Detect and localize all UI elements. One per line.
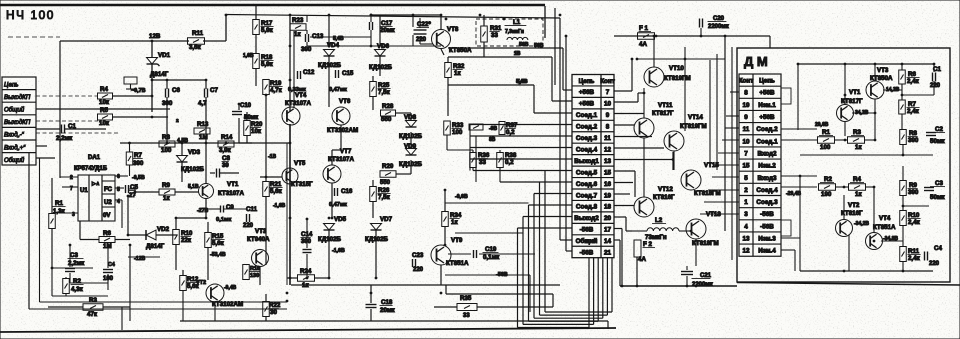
svg-text:1В: 1В: [514, 51, 521, 57]
svg-text:C7: C7: [210, 87, 218, 94]
svg-text:220: 220: [243, 223, 254, 229]
svg-text:Соед.2: Соед.2: [576, 124, 598, 131]
svg-text:VT11: VT11: [658, 102, 673, 109]
svg-text:▷∧: ▷∧: [91, 181, 100, 187]
svg-text:Д М: Д М: [744, 54, 768, 69]
svg-text:КТ817Г: КТ817Г: [841, 98, 863, 105]
svg-text:22к: 22к: [181, 237, 192, 244]
svg-text:Общий: Общий: [576, 237, 598, 245]
svg-text:5,9к: 5,9к: [261, 27, 274, 34]
svg-text:2,4к: 2,4к: [907, 108, 920, 115]
svg-text:VD7: VD7: [380, 216, 393, 223]
svg-text:100: 100: [820, 144, 831, 151]
svg-text:L1: L1: [513, 19, 521, 26]
svg-text:R8: R8: [909, 130, 917, 137]
svg-text:Цепь: Цепь: [579, 78, 595, 85]
svg-text:20мк: 20мк: [380, 27, 395, 34]
svg-text:R1: R1: [822, 129, 830, 136]
svg-text:100: 100: [161, 147, 172, 154]
svg-text:1М: 1М: [199, 134, 208, 141]
svg-text:C23: C23: [412, 252, 424, 259]
svg-text:R26: R26: [378, 187, 390, 194]
svg-text:3,9к: 3,9к: [219, 147, 232, 154]
svg-text:R2: R2: [824, 176, 832, 183]
svg-text:DA1: DA1: [88, 155, 101, 161]
svg-text:R7: R7: [908, 101, 916, 108]
svg-text:C3: C3: [935, 180, 943, 187]
svg-text:F 2: F 2: [643, 241, 652, 248]
svg-text:C17: C17: [381, 20, 393, 27]
svg-text:VT12: VT12: [658, 186, 673, 193]
svg-text:-9В: -9В: [489, 126, 497, 132]
svg-text:5,1В: 5,1В: [188, 184, 199, 190]
svg-text:R13: R13: [197, 121, 209, 128]
svg-text:2200мк: 2200мк: [708, 24, 729, 30]
svg-text:КД102Б: КД102Б: [369, 64, 393, 71]
svg-text:Вход3: Вход3: [757, 175, 777, 182]
svg-text:47к: 47к: [87, 311, 98, 318]
svg-text:КД102Б: КД102Б: [318, 236, 342, 243]
svg-text:Выход1: Выход1: [574, 158, 599, 165]
svg-text:220: 220: [413, 267, 424, 273]
svg-text:21: 21: [604, 250, 612, 257]
svg-text:R4: R4: [100, 86, 108, 93]
svg-text:0,1мк: 0,1мк: [483, 254, 500, 261]
svg-text:КД102Б: КД102Б: [181, 166, 205, 173]
svg-text:КД102Б: КД102Б: [365, 236, 389, 243]
svg-text:20: 20: [604, 215, 612, 222]
svg-text:VT6: VT6: [339, 98, 351, 105]
svg-text:КТ3102АМ: КТ3102АМ: [327, 127, 358, 134]
svg-text:33: 33: [491, 32, 498, 39]
svg-text:R9: R9: [909, 182, 917, 189]
svg-text:R23: R23: [292, 17, 304, 24]
svg-text:9: 9: [744, 114, 748, 121]
svg-text:220: 220: [416, 37, 427, 43]
svg-text:R10: R10: [181, 230, 193, 237]
svg-text:1,6В: 1,6В: [243, 53, 254, 59]
svg-text:VT10: VT10: [669, 65, 684, 72]
svg-text:14: 14: [604, 238, 612, 245]
svg-text:R38: R38: [505, 152, 517, 159]
svg-text:R37: R37: [506, 122, 518, 129]
svg-text:НЧ 100: НЧ 100: [6, 8, 55, 22]
svg-text:C9: C9: [226, 205, 234, 211]
svg-text:R17: R17: [261, 20, 273, 27]
svg-text:0,2: 0,2: [505, 159, 514, 166]
svg-text:Соед.8: Соед.8: [576, 204, 598, 211]
svg-text:VT8: VT8: [447, 26, 459, 33]
svg-text:КТ816Г: КТ816Г: [653, 194, 675, 201]
svg-text:R8: R8: [162, 134, 170, 141]
svg-text:C22*: C22*: [417, 21, 431, 28]
svg-text:VT9: VT9: [451, 237, 463, 244]
svg-text:10к: 10к: [99, 99, 110, 106]
svg-text:R7: R7: [134, 152, 142, 159]
svg-text:Соед.1: Соед.1: [756, 138, 778, 145]
svg-text:Вход„+“: Вход„+“: [4, 144, 26, 151]
svg-text:1к: 1к: [163, 195, 170, 202]
svg-text:1,3к: 1,3к: [53, 208, 66, 215]
svg-text:VD8: VD8: [404, 114, 417, 121]
svg-text:VT7: VT7: [340, 148, 352, 155]
svg-text:Соед.3: Соед.3: [576, 135, 598, 142]
svg-text:C10: C10: [240, 103, 252, 109]
svg-text:50мк: 50мк: [930, 194, 945, 201]
svg-text:-56В: -56В: [580, 227, 594, 234]
svg-text:КТ3107А: КТ3107А: [285, 100, 311, 107]
svg-text:7: 7: [744, 150, 748, 157]
svg-text:7,5к: 7,5к: [378, 194, 391, 201]
svg-text:Изм.1: Изм.1: [758, 102, 776, 109]
svg-text:VT1: VT1: [227, 181, 239, 188]
svg-text:Соед.5: Соед.5: [576, 169, 598, 176]
svg-text:C4: C4: [934, 245, 942, 252]
svg-text:7,5к: 7,5к: [378, 89, 391, 96]
svg-text:Цепь: Цепь: [4, 81, 19, 88]
svg-text:~0,7В: ~0,7В: [131, 88, 146, 94]
svg-text:R3: R3: [89, 297, 97, 304]
svg-text:R18: R18: [261, 54, 273, 61]
svg-text:4: 4: [744, 223, 748, 230]
svg-text:Соед.7: Соед.7: [576, 192, 598, 199]
svg-text:Конт: Конт: [739, 78, 754, 85]
svg-text:130: 130: [250, 273, 259, 279]
svg-text:VT14: VT14: [688, 114, 703, 121]
svg-text:C20: C20: [713, 16, 725, 22]
svg-text:-34,2В: -34,2В: [854, 221, 869, 227]
svg-text:-1,6В: -1,6В: [273, 203, 286, 209]
svg-text:VT5: VT5: [294, 160, 306, 167]
svg-text:29,6В: 29,6В: [815, 122, 829, 128]
svg-text:+56В: +56В: [579, 101, 595, 108]
svg-text:11: 11: [743, 126, 750, 133]
svg-text:9: 9: [606, 112, 610, 119]
svg-text:2,2мк: 2,2мк: [56, 135, 73, 142]
svg-text:КТ851А: КТ851А: [446, 260, 469, 267]
svg-text:1к: 1к: [855, 191, 862, 198]
svg-text:C2: C2: [935, 126, 943, 133]
svg-text:30: 30: [270, 309, 277, 316]
svg-text:Д814Г: Д814Г: [146, 243, 165, 250]
svg-text:5,6к: 5,6к: [270, 188, 283, 195]
svg-text:390: 390: [908, 137, 919, 144]
svg-text:-56В: -56В: [760, 211, 774, 218]
svg-text:12: 12: [742, 248, 750, 255]
svg-text:0,2: 0,2: [506, 129, 515, 136]
svg-text:+56В: +56В: [759, 114, 775, 121]
svg-text:ВыходКП: ВыходКП: [4, 119, 31, 126]
svg-text:550: 550: [381, 116, 392, 123]
svg-text:5,4В: 5,4В: [517, 79, 528, 85]
svg-text:VT1: VT1: [849, 89, 861, 96]
svg-text:390: 390: [908, 189, 919, 196]
svg-text:R33: R33: [452, 122, 464, 129]
svg-text:КТ818ГМ: КТ818ГМ: [694, 190, 721, 197]
svg-text:КР574УД1Б: КР574УД1Б: [74, 166, 108, 172]
svg-text:Общий: Общий: [4, 157, 25, 164]
svg-text:а: а: [244, 116, 247, 121]
svg-text:VD9: VD9: [404, 143, 417, 150]
svg-text:C15: C15: [342, 70, 354, 77]
svg-text:Соед.4: Соед.4: [756, 187, 778, 194]
svg-text:-1В: -1В: [268, 154, 276, 160]
svg-text:1к: 1к: [294, 31, 301, 38]
svg-text:190: 190: [821, 191, 832, 198]
svg-text:0,47мк: 0,47мк: [329, 87, 347, 93]
svg-text:50мк: 50мк: [930, 138, 945, 145]
svg-text:2,4к: 2,4к: [908, 219, 921, 226]
svg-text:56В: 56В: [519, 42, 529, 48]
svg-text:КТ3107А: КТ3107А: [218, 190, 244, 197]
svg-text:19: 19: [604, 192, 612, 199]
svg-text:15: 15: [742, 163, 750, 170]
svg-text:8: 8: [744, 90, 748, 97]
svg-text:11: 11: [604, 135, 611, 142]
svg-text:FC: FC: [104, 187, 113, 193]
svg-text:Выход2: Выход2: [574, 215, 599, 222]
svg-text:39: 39: [222, 163, 229, 169]
svg-text:4А: 4А: [638, 256, 646, 263]
svg-text:10к: 10к: [251, 128, 262, 135]
svg-text:C11: C11: [246, 206, 258, 213]
svg-text:-53,4В: -53,4В: [210, 252, 226, 258]
svg-text:КД102Б: КД102Б: [318, 62, 342, 69]
svg-text:VD2: VD2: [157, 226, 170, 233]
svg-text:R1: R1: [55, 200, 63, 207]
svg-text:Д814Г: Д814Г: [150, 71, 169, 78]
svg-text:C18: C18: [381, 299, 393, 306]
svg-text:10: 10: [742, 138, 750, 145]
svg-text:VD1: VD1: [158, 52, 171, 59]
svg-text:+56В: +56В: [579, 89, 595, 96]
svg-text:-56В: -56В: [760, 223, 774, 230]
svg-text:КТ819ГМ: КТ819ГМ: [664, 75, 691, 82]
svg-text:R25: R25: [378, 82, 390, 89]
svg-text:C4: C4: [108, 262, 115, 268]
svg-text:КТ817Г: КТ817Г: [652, 110, 674, 117]
svg-text:Цепь: Цепь: [759, 78, 775, 85]
svg-text:Изм.4: Изм.4: [758, 248, 776, 255]
svg-text:U2: U2: [104, 200, 112, 206]
svg-text:12: 12: [604, 146, 612, 153]
svg-text:R20: R20: [251, 121, 263, 128]
svg-text:16: 16: [604, 181, 612, 188]
svg-text:R4: R4: [853, 176, 861, 183]
svg-text:L2: L2: [655, 217, 663, 224]
svg-text:1к: 1к: [454, 70, 461, 77]
svg-text:-56В: -56В: [580, 250, 594, 257]
svg-text:0,1мк: 0,1мк: [216, 217, 231, 223]
svg-text:R14: R14: [221, 134, 233, 141]
svg-text:19: 19: [742, 102, 750, 109]
svg-text:Соед.3: Соед.3: [756, 199, 778, 206]
svg-text:1к: 1к: [451, 219, 458, 226]
svg-text:8: 8: [606, 124, 610, 131]
svg-text:R6: R6: [908, 71, 916, 78]
svg-text:R24: R24: [300, 268, 312, 275]
svg-text:2,2мк: 2,2мк: [68, 260, 85, 267]
svg-text:R29: R29: [382, 163, 394, 170]
svg-text:220: 220: [929, 261, 940, 267]
svg-text:390: 390: [301, 239, 312, 245]
svg-text:73мкГн: 73мкГн: [645, 234, 667, 241]
svg-text:VT4: VT4: [295, 92, 307, 99]
svg-text:КТ851А: КТ851А: [873, 224, 896, 231]
svg-text:Вход2: Вход2: [757, 150, 777, 157]
svg-text:F 1: F 1: [639, 25, 648, 32]
svg-text:Соед.6: Соед.6: [576, 181, 598, 188]
svg-text:R5: R5: [100, 107, 108, 114]
svg-text:1: 1: [744, 199, 748, 206]
svg-text:VT2: VT2: [848, 202, 860, 209]
svg-text:5,9к: 5,9к: [261, 61, 274, 68]
svg-text:7,3мкГн: 7,3мкГн: [505, 29, 524, 35]
svg-text:VT2: VT2: [196, 280, 206, 286]
svg-text:R9: R9: [162, 182, 170, 189]
svg-text:R16: R16: [250, 266, 260, 272]
svg-text:R35: R35: [460, 295, 472, 302]
svg-text:Соед.2: Соед.2: [756, 126, 778, 133]
svg-text:Конт: Конт: [600, 78, 615, 85]
svg-text:0V: 0V: [103, 213, 110, 219]
svg-text:C19: C19: [485, 246, 497, 253]
svg-text:2: 2: [176, 118, 179, 124]
svg-text:-0,6В: -0,6В: [455, 194, 468, 200]
svg-text:12В: 12В: [149, 33, 161, 40]
svg-text:R36: R36: [478, 152, 490, 159]
svg-text:10: 10: [604, 101, 612, 108]
svg-text:-0,5В: -0,5В: [132, 175, 145, 181]
svg-text:100: 100: [452, 129, 463, 136]
svg-text:-29,4В: -29,4В: [786, 191, 801, 197]
svg-text:C16: C16: [341, 188, 353, 195]
svg-text:4,3к: 4,3к: [71, 286, 84, 293]
svg-text:3: 3: [744, 211, 748, 218]
svg-text:VT4: VT4: [879, 215, 891, 222]
svg-text:R2: R2: [73, 278, 81, 285]
svg-text:390: 390: [301, 46, 312, 53]
svg-text:550: 550: [380, 180, 391, 186]
svg-text:33: 33: [463, 313, 470, 319]
svg-text:R11: R11: [192, 30, 204, 37]
svg-text:7: 7: [606, 89, 610, 96]
svg-text:5,4В: 5,4В: [333, 36, 344, 42]
svg-text:5: 5: [744, 175, 748, 182]
svg-text:10к: 10к: [99, 120, 110, 127]
svg-text:R31: R31: [490, 25, 502, 32]
svg-text:VD3: VD3: [188, 149, 201, 156]
svg-text:4А: 4А: [639, 41, 647, 48]
svg-text:ВыходКП: ВыходКП: [4, 94, 31, 101]
svg-text:220: 220: [930, 83, 941, 89]
svg-text:C21: C21: [700, 273, 712, 279]
svg-text:15: 15: [604, 169, 612, 176]
svg-text:13: 13: [604, 158, 612, 165]
svg-text:C12: C12: [303, 69, 315, 76]
svg-text:R11: R11: [908, 248, 920, 255]
svg-text:Общий: Общий: [4, 107, 25, 114]
svg-text:8В: 8В: [489, 137, 496, 143]
svg-text:-1,6В: -1,6В: [332, 248, 345, 254]
svg-text:4,7к: 4,7к: [270, 87, 283, 94]
svg-text:КТ819ГМ: КТ819ГМ: [680, 123, 707, 130]
svg-text:13: 13: [742, 236, 750, 243]
svg-text:-9,4В: -9,4В: [224, 285, 237, 291]
svg-text:R10: R10: [908, 212, 920, 219]
svg-text:Соед.1: Соед.1: [576, 112, 598, 119]
svg-text:2,4к: 2,4к: [907, 78, 920, 85]
svg-text:1к: 1к: [855, 144, 862, 151]
svg-text:C6: C6: [172, 87, 180, 94]
svg-text:390: 390: [133, 160, 144, 167]
svg-text:18: 18: [604, 204, 612, 211]
svg-text:2,4к: 2,4к: [908, 255, 921, 262]
svg-text:R32: R32: [453, 63, 465, 70]
svg-text:VT3: VT3: [877, 67, 889, 74]
svg-text:VD5: VD5: [334, 216, 347, 223]
svg-text:C3: C3: [70, 252, 78, 259]
svg-text:6: 6: [117, 174, 120, 180]
svg-text:R34: R34: [450, 212, 462, 219]
svg-text:R21: R21: [270, 181, 282, 188]
svg-text:5,6к: 5,6к: [212, 240, 225, 247]
svg-text:VT3: VT3: [255, 228, 267, 235]
svg-text:17: 17: [604, 227, 612, 234]
svg-text:R15: R15: [212, 233, 224, 240]
svg-text:Изм.3: Изм.3: [758, 236, 776, 243]
svg-text:C5: C5: [130, 184, 138, 191]
svg-text:R6: R6: [103, 230, 111, 237]
svg-text:Изм.2: Изм.2: [758, 163, 776, 170]
svg-text:КТ3107А: КТ3107А: [328, 156, 354, 163]
svg-text:C8: C8: [222, 155, 230, 162]
svg-text:2: 2: [744, 187, 748, 194]
svg-text:КТ940А: КТ940А: [247, 236, 270, 243]
svg-text:33: 33: [479, 159, 486, 166]
svg-text:R3: R3: [853, 129, 861, 136]
svg-text:3,6к: 3,6к: [189, 44, 202, 51]
svg-text:R28: R28: [382, 103, 394, 110]
svg-text:+56В: +56В: [759, 90, 775, 97]
svg-text:КТ315Г: КТ315Г: [291, 181, 313, 188]
svg-text:Вход„-“: Вход„-“: [4, 132, 25, 139]
svg-text:U1: U1: [80, 188, 88, 194]
svg-text:R22: R22: [269, 302, 281, 309]
svg-text:R19: R19: [270, 80, 282, 87]
svg-text:Соед.4: Соед.4: [576, 146, 598, 153]
svg-text:2: 2: [70, 175, 73, 181]
svg-text:20мк: 20мк: [380, 307, 395, 314]
